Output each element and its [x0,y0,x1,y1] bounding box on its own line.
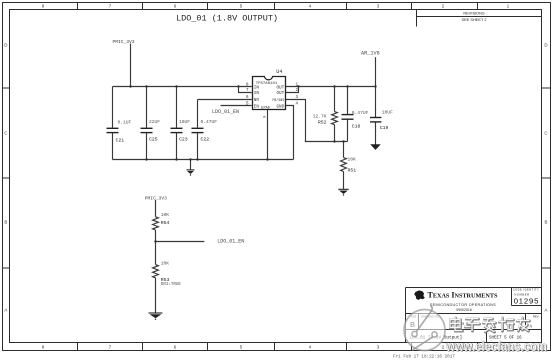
svg-text:LDO_01_EN: LDO_01_EN [212,109,239,115]
svg-text:10K: 10K [161,212,170,218]
svg-text:C22: C22 [201,137,210,143]
svg-text:U4: U4 [276,69,282,75]
svg-text:IN: IN [254,86,260,91]
svg-text:A: A [545,308,548,313]
svg-text:TPS7A8101: TPS7A8101 [256,82,278,86]
svg-text:R51: R51 [348,168,357,174]
svg-text:DNI=TRUE: DNI=TRUE [161,283,182,287]
svg-text:C25: C25 [149,137,158,143]
svg-text:C21: C21 [116,138,125,144]
svg-text:01295: 01295 [514,297,540,306]
svg-text:REVISIONS: REVISIONS [463,11,485,16]
svg-text:0.47UF: 0.47UF [201,119,218,125]
svg-text:0.1UF: 0.1UF [118,120,132,126]
svg-text:PMIC_3V3: PMIC_3V3 [113,39,135,45]
svg-text:B: B [545,220,548,225]
svg-text:R52: R52 [318,120,327,126]
svg-text:OUT: OUT [276,91,284,96]
svg-text:A: A [4,308,7,313]
svg-text:C19: C19 [380,125,389,131]
svg-text:AR_1V8: AR_1V8 [361,51,380,57]
svg-text:10UF: 10UF [179,119,190,125]
svg-text:D: D [4,43,7,48]
svg-text:12.7K: 12.7K [313,114,327,120]
svg-text:0.47UF: 0.47UF [352,110,369,116]
svg-text:Fri Feb 17 18:22:16 2017: Fri Feb 17 18:22:16 2017 [393,354,455,359]
svg-text:OUT: OUT [276,86,284,91]
svg-text:LDO_01 (1.8V OUTPUT): LDO_01 (1.8V OUTPUT) [176,13,278,23]
svg-text:IN: IN [254,91,260,96]
svg-text:SEE SHEET 2: SEE SHEET 2 [461,17,486,22]
svg-text:C18: C18 [352,123,361,129]
svg-text:R54: R54 [161,220,170,226]
svg-text:09/5/2016: 09/5/2016 [456,308,472,312]
svg-text:10K: 10K [348,156,357,162]
svg-text:EN: EN [254,105,260,110]
svg-text:www.elecfans.com: www.elecfans.com [445,338,547,354]
svg-text:SEMICONDUCTOR OPERATIONS: SEMICONDUCTOR OPERATIONS [430,303,496,307]
svg-text:GND: GND [276,104,284,109]
svg-text:FB/SNS: FB/SNS [272,98,284,102]
svg-text:LDO_01_EN: LDO_01_EN [217,239,244,245]
svg-text:D: D [544,43,547,48]
svg-text:REV: REV [533,314,539,318]
svg-text:TEXAS INSTRUMENTS: TEXAS INSTRUMENTS [428,290,499,299]
svg-text:10UF: 10UF [382,110,393,116]
svg-text:CODE IDENTITY: CODE IDENTITY [513,288,540,292]
svg-text:22UF: 22UF [149,119,160,125]
svg-text:C: C [4,131,7,136]
svg-text:B: B [4,220,7,225]
svg-text:EPAD: EPAD [261,107,270,111]
svg-text:R53: R53 [161,277,170,283]
svg-text:10K: 10K [161,261,170,267]
svg-text:C23: C23 [179,137,188,143]
svg-text:NR: NR [254,98,260,103]
svg-text:PMIC_3V3: PMIC_3V3 [145,195,167,201]
svg-text:C: C [544,131,547,136]
